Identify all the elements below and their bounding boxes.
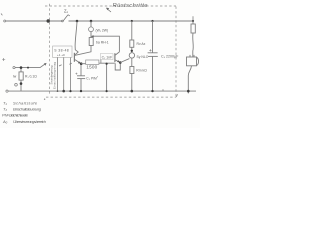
svg-text:T₁: T₁ (3, 100, 7, 105)
svg-text:Übersteuerungsbereich: Übersteuerungsbereich (13, 119, 47, 124)
svg-text:Einschaltsteuerung: Einschaltsteuerung (13, 107, 42, 112)
svg-text:Rüstschritte: Rüstschritte (113, 3, 149, 9)
svg-text:R₁ 0,1Ω: R₁ 0,1Ω (25, 74, 37, 78)
svg-text:1500: 1500 (86, 64, 97, 69)
svg-text:Rv Ax: Rv Ax (137, 42, 146, 46)
svg-text:+1 +0: +1 +0 (57, 53, 65, 57)
svg-text:lw: lw (13, 75, 17, 79)
svg-text:Sy NLC: Sy NLC (137, 55, 149, 59)
svg-text:T₂: T₂ (3, 107, 7, 112)
svg-text:C₄ 2200μF: C₄ 2200μF (161, 55, 179, 59)
svg-text:Einschaltbegrenzg: Einschaltbegrenzg (52, 62, 56, 89)
svg-text:Schaltstufe: Schaltstufe (13, 100, 38, 105)
svg-text:P·N=Gleichrichtwerte: P·N=Gleichrichtwerte (2, 113, 29, 118)
svg-text:A₀: A₀ (2, 119, 8, 124)
svg-text:(W₁ 2W): (W₁ 2W) (96, 29, 109, 33)
svg-text:ba RH-1: ba RH-1 (96, 40, 109, 44)
svg-text:Z₁: Z₁ (64, 8, 69, 13)
svg-text:Rm kΩ: Rm kΩ (136, 69, 147, 73)
svg-text:C₅ PlM: C₅ PlM (86, 76, 97, 80)
svg-text:r: r (97, 75, 98, 79)
svg-text:C₂ 1nF: C₂ 1nF (102, 55, 113, 59)
